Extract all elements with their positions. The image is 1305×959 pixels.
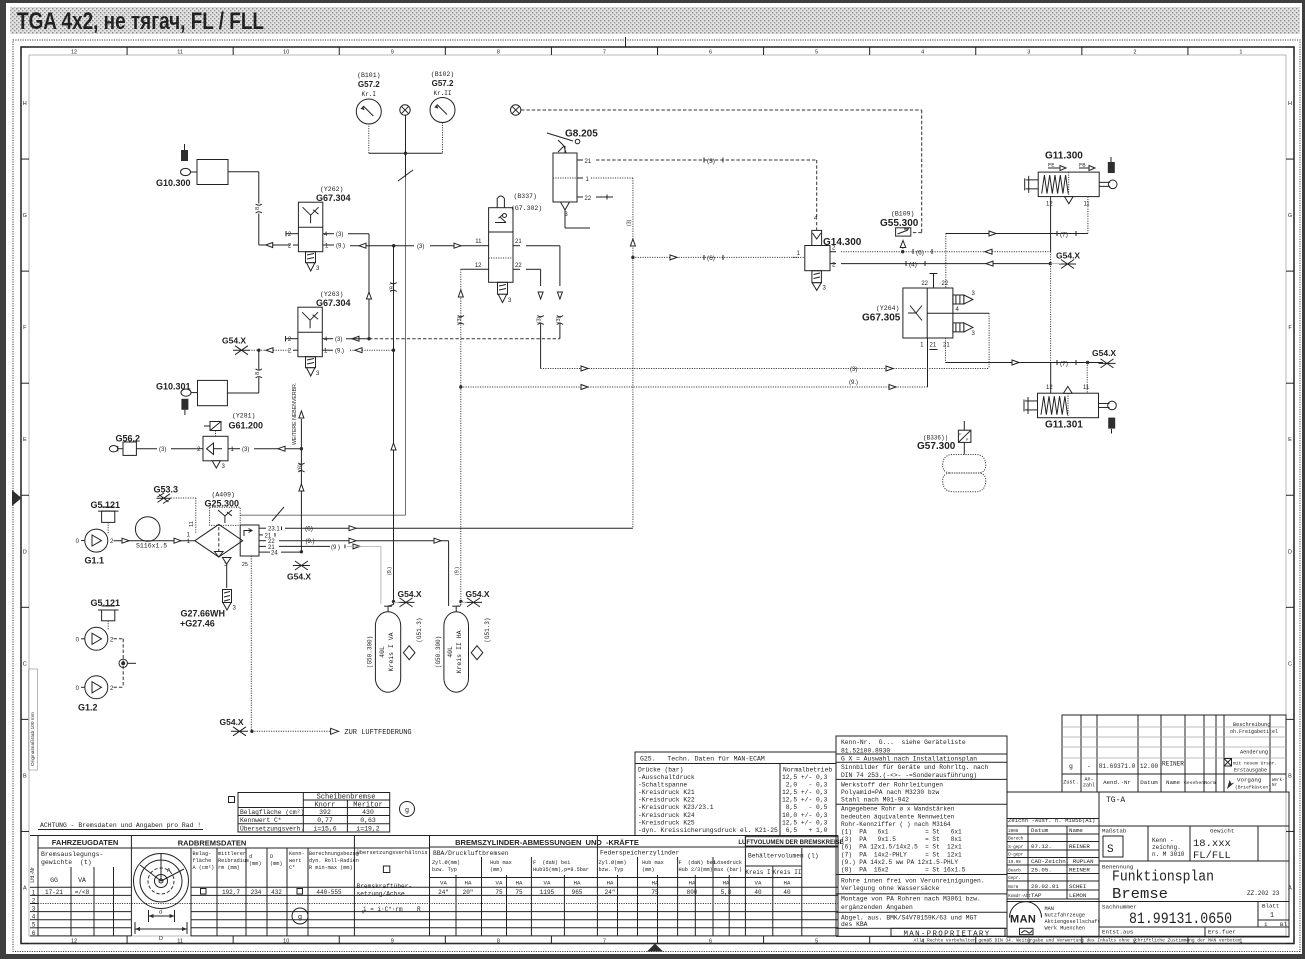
svg-text:2008: 2008 bbox=[1008, 830, 1019, 834]
MAN logo bbox=[1007, 901, 1099, 903]
svg-text:22: 22 bbox=[921, 281, 928, 287]
svg-text:8: 8 bbox=[255, 372, 261, 375]
svg-text:(Y263): (Y263) bbox=[320, 291, 343, 298]
svg-text:D: D bbox=[23, 549, 27, 555]
svg-text:17-21: 17-21 bbox=[45, 889, 63, 896]
svg-text:(7): (7) bbox=[1060, 231, 1068, 238]
svg-text:(1) PA 6x1 = St: (1) PA 6x1 = St 6x1 bbox=[841, 829, 962, 836]
svg-text:DIN 74 253.(-<>- -=Sonderausfü: DIN 74 253.(-<>- -=Sonderausführung) bbox=[841, 772, 977, 779]
svg-text:MAN: MAN bbox=[1010, 914, 1036, 926]
svg-text:Kr.I: Kr.I bbox=[362, 91, 376, 98]
svg-text:0,63: 0,63 bbox=[360, 817, 376, 824]
G54.X reservoir 1 bbox=[398, 598, 415, 607]
exhaust 3 of Y263 bbox=[306, 357, 316, 368]
svg-text:7: 7 bbox=[603, 50, 606, 56]
svg-text:G X = Auswahl nach Installatio: G X = Auswahl nach Installationsplan bbox=[841, 756, 977, 763]
svg-text:G1.2: G1.2 bbox=[78, 703, 98, 713]
node (4) end bbox=[1049, 262, 1052, 265]
svg-text:(4): (4) bbox=[909, 262, 917, 269]
svg-text:k: k bbox=[362, 910, 365, 916]
svg-text:12: 12 bbox=[71, 50, 77, 56]
(6) corner down bbox=[1050, 252, 1052, 264]
svg-text:Montage von PA Rohren nach M30: Montage von PA Rohren nach M3061 bzw. bbox=[841, 895, 981, 902]
svg-text:A: A bbox=[167, 868, 171, 874]
svg-text:(B101): (B101) bbox=[357, 72, 380, 79]
svg-text:REINER: REINER bbox=[1069, 843, 1090, 850]
svg-text:Kreis II HA: Kreis II HA bbox=[456, 630, 463, 673]
svg-text:392: 392 bbox=[319, 809, 331, 816]
svg-text:8: 8 bbox=[497, 939, 500, 945]
test ports right bbox=[953, 295, 964, 304]
ports bottom bbox=[927, 338, 929, 387]
valve G67.304 Y262 bbox=[298, 202, 322, 252]
svg-text:E: E bbox=[1288, 437, 1292, 443]
svg-text:wert: wert bbox=[289, 858, 301, 864]
svg-text:(6) PA 12x1.5/14x2.5 = St 1: (6) PA 12x1.5/14x2.5 = St 12x1 bbox=[841, 844, 962, 851]
svg-text:rm (mm): rm (mm) bbox=[218, 865, 240, 871]
svg-text:Reibradius: Reibradius bbox=[218, 858, 249, 864]
svg-text:G5.121: G5.121 bbox=[91, 500, 121, 510]
svg-text:(G7.302): (G7.302) bbox=[511, 205, 542, 212]
svg-text:B: B bbox=[1288, 773, 1292, 779]
svg-text:Lösedruck: Lösedruck bbox=[714, 860, 742, 866]
svg-text:setzung/Achse: setzung/Achse bbox=[357, 891, 406, 898]
wire to G55.300 bbox=[521, 109, 922, 111]
svg-text:07.12.: 07.12. bbox=[1031, 843, 1052, 850]
svg-text:192,7: 192,7 bbox=[222, 889, 240, 896]
svg-text:Zust.: Zust. bbox=[1063, 780, 1079, 786]
svg-text:Bremse: Bremse bbox=[1112, 886, 1168, 903]
wire V5 (6) G8.205 p1 down to G25.300 23.1 bbox=[632, 178, 634, 528]
svg-text:12: 12 bbox=[71, 939, 77, 945]
svg-text:40: 40 bbox=[783, 889, 791, 896]
svg-text:S116x1.5: S116x1.5 bbox=[136, 543, 167, 550]
svg-text:Normalbetrieb: Normalbetrieb bbox=[783, 767, 832, 774]
svg-text:Gewicht: Gewicht bbox=[1210, 828, 1234, 835]
svg-text:20": 20" bbox=[463, 889, 474, 896]
svg-text:Übersetzungsverhältnis: Übersetzungsverhältnis bbox=[357, 849, 428, 856]
svg-text:E: E bbox=[23, 437, 27, 443]
svg-text:10: 10 bbox=[283, 50, 289, 56]
wire y233 solid bbox=[946, 233, 1088, 235]
svg-text:-: - bbox=[1087, 763, 1091, 770]
svg-text:G27.66WH: G27.66WH bbox=[181, 609, 226, 619]
svg-text:Hub 2/3(mm): Hub 2/3(mm) bbox=[679, 867, 713, 873]
svg-text:Norm: Norm bbox=[1008, 886, 1019, 890]
svg-text:40: 40 bbox=[754, 889, 762, 896]
bellows bbox=[943, 455, 986, 474]
svg-text:Bremsauslegungs-: Bremsauslegungs- bbox=[41, 851, 103, 858]
svg-text:mittlerer: mittlerer bbox=[218, 851, 246, 857]
svg-text:Berech: Berech bbox=[1008, 837, 1024, 842]
svg-text:(9.): (9.) bbox=[849, 380, 858, 386]
G14 exhaust bbox=[812, 271, 822, 283]
svg-text:11: 11 bbox=[189, 521, 195, 527]
svg-text:C: C bbox=[1288, 661, 1292, 667]
svg-text:G25. Techn. Daten für MAN-EC: G25. Techn. Daten für MAN-ECAM bbox=[640, 756, 765, 763]
svg-text:Federspeicherzylinder: Federspeicherzylinder bbox=[600, 850, 680, 857]
svg-text:Rohre innen frei von Verunrein: Rohre innen frei von Verunreinigungen. bbox=[841, 877, 985, 884]
svg-text:FE: FE bbox=[1048, 162, 1055, 169]
svg-text:-dyn. Kreissicherungsdruck el.: -dyn. Kreissicherungsdruck el. K21-25 bbox=[638, 827, 778, 834]
svg-text:Alle Rechte vorbehalten gemäß: Alle Rechte vorbehalten gemäß DIN 34. We… bbox=[914, 939, 1242, 944]
port 4 bbox=[953, 312, 989, 314]
svg-text:0,77: 0,77 bbox=[317, 817, 333, 824]
svg-text:21: 21 bbox=[930, 343, 937, 349]
svg-text:12: 12 bbox=[1046, 385, 1053, 391]
svg-text:(3): (3) bbox=[159, 447, 166, 453]
svg-text:TGA 4x2, не тягач, FL / FLL: TGA 4x2, не тягач, FL / FLL bbox=[17, 8, 264, 35]
svg-text:(3): (3) bbox=[242, 447, 249, 453]
svg-text:12.00: 12.00 bbox=[1140, 763, 1159, 770]
svg-text:A: A bbox=[23, 885, 27, 891]
fold mark left edge bbox=[12, 490, 22, 506]
svg-text:=/<8: =/<8 bbox=[75, 889, 90, 896]
G54.X reservoir 2 bbox=[465, 598, 482, 607]
(7) line to G11.301 bbox=[946, 362, 1104, 364]
svg-text:HA: HA bbox=[574, 880, 581, 887]
wire (3) down to Y263 port4 line bbox=[368, 234, 370, 339]
svg-text:430: 430 bbox=[362, 809, 374, 816]
svg-text:(mm): (mm) bbox=[490, 867, 502, 873]
svg-text:40L: 40L bbox=[447, 646, 454, 658]
svg-text:11: 11 bbox=[1084, 202, 1091, 208]
svg-text:1195: 1195 bbox=[540, 889, 555, 896]
table G25 tech data bbox=[635, 752, 836, 836]
wire to air suspension bbox=[252, 730, 331, 732]
svg-text:HA: HA bbox=[607, 880, 614, 887]
svg-text:10: 10 bbox=[283, 939, 289, 945]
svg-text:440-555: 440-555 bbox=[316, 889, 342, 896]
svg-text:Werkstoff der Rohrleitungen: Werkstoff der Rohrleitungen bbox=[841, 782, 943, 789]
svg-text:-Kreisdruck K25: -Kreisdruck K25 bbox=[638, 819, 695, 826]
svg-text:G54.X: G54.X bbox=[222, 336, 246, 346]
svg-text:Angegebene Rohr ø x Wandstärke: Angegebene Rohr ø x Wandstärken bbox=[841, 806, 955, 813]
svg-text:6: 6 bbox=[709, 939, 712, 945]
plugged junction bbox=[119, 659, 127, 667]
svg-text:TG-A: TG-A bbox=[1106, 796, 1125, 805]
wire (3) to B337 port 11 bbox=[394, 245, 414, 247]
spring brake cylinder G11.300 bbox=[1038, 172, 1099, 197]
svg-text:(mm): (mm) bbox=[270, 861, 282, 867]
svg-text:Belag-: Belag- bbox=[193, 851, 212, 857]
svg-text:(9.): (9.) bbox=[390, 283, 396, 291]
test point connector 2 bbox=[511, 105, 521, 115]
svg-text:LEMON: LEMON bbox=[1069, 892, 1087, 899]
svg-text:2,0 - 0,3: 2,0 - 0,3 bbox=[782, 782, 828, 789]
wire G10.300 to valve bbox=[228, 171, 259, 173]
svg-text:Hub max: Hub max bbox=[642, 860, 664, 866]
svg-text:Kreis II: Kreis II bbox=[773, 869, 802, 876]
svg-text:12: 12 bbox=[475, 263, 482, 269]
wire G61.200 to node (3) bbox=[228, 448, 240, 450]
svg-text:432: 432 bbox=[271, 889, 282, 896]
svg-text:G11.301: G11.301 bbox=[1045, 420, 1083, 431]
valve G67.304 Y263 bbox=[298, 307, 322, 357]
svg-text:Datum: Datum bbox=[1140, 779, 1158, 786]
svg-text:Hub max: Hub max bbox=[490, 860, 512, 866]
svg-text:Sinnbilder für Geräte und Rohr: Sinnbilder für Geräte und Rohrltg. nach bbox=[841, 764, 989, 771]
svg-text:(3): (3) bbox=[417, 244, 424, 250]
svg-text:RADBREMSDATEN: RADBREMSDATEN bbox=[178, 839, 247, 848]
ports 22 top bbox=[933, 278, 935, 288]
muffler G27.66WH bbox=[223, 590, 232, 603]
revision table bbox=[1062, 715, 1286, 792]
exhaust G61.200 bbox=[212, 461, 220, 468]
long wire (9.) to G67.305 port1 bbox=[461, 386, 928, 388]
node bbox=[257, 349, 260, 352]
svg-text:Drücke (bar): Drücke (bar) bbox=[638, 767, 683, 774]
svg-text:n. M 3010: n. M 3010 bbox=[1152, 851, 1185, 858]
gray wire to reservoir 1 bbox=[347, 545, 381, 547]
svg-text:REINER: REINER bbox=[1069, 867, 1090, 874]
svg-text:S-gepr: S-gepr bbox=[1008, 846, 1024, 850]
gauge B102 G57.2 bbox=[430, 98, 455, 123]
svg-text:Kreis I: Kreis I bbox=[745, 869, 770, 876]
svg-text:G14.300: G14.300 bbox=[823, 237, 862, 248]
svg-text:G54.X: G54.X bbox=[1092, 348, 1116, 358]
svg-text:H: H bbox=[1288, 101, 1292, 107]
svg-text:11: 11 bbox=[475, 239, 482, 245]
svg-text:Werk-: Werk- bbox=[1272, 778, 1285, 783]
svg-text:(9.): (9.) bbox=[306, 539, 315, 545]
svg-text:12,5 +/- 0,3: 12,5 +/- 0,3 bbox=[782, 819, 828, 826]
svg-text:25: 25 bbox=[242, 562, 248, 568]
compressor G1.1 bbox=[85, 529, 108, 552]
svg-text:Ers.fuer: Ers.fuer bbox=[1208, 929, 1236, 936]
svg-text:12: 12 bbox=[1046, 202, 1053, 208]
svg-text:G54.X: G54.X bbox=[466, 589, 490, 599]
svg-text:5: 5 bbox=[815, 939, 818, 945]
svg-text:21: 21 bbox=[515, 239, 522, 245]
svg-text:Behältervolumen (l): Behältervolumen (l) bbox=[748, 853, 819, 860]
plug G11.300 bbox=[1108, 162, 1115, 173]
svg-text:Nr: Nr bbox=[1272, 784, 1278, 788]
reservoir 1 40L Kreis I VA bbox=[375, 612, 400, 693]
svg-text:G67.304: G67.304 bbox=[316, 193, 351, 203]
svg-text:ZUR LUFTFEDERUNG: ZUR LUFTFEDERUNG bbox=[344, 729, 411, 737]
svg-text:24": 24" bbox=[605, 889, 616, 896]
svg-text:D: D bbox=[270, 854, 273, 860]
node port24 bbox=[300, 550, 303, 553]
svg-text:G10.301: G10.301 bbox=[156, 382, 191, 392]
svg-text:81.99131.0650: 81.99131.0650 bbox=[1129, 910, 1232, 928]
svg-text:Aenderung: Aenderung bbox=[1240, 750, 1268, 756]
svg-text:gewichte (t): gewichte (t) bbox=[41, 859, 92, 866]
svg-text:G67.305: G67.305 bbox=[862, 313, 901, 324]
svg-text:F (daN) bei: F (daN) bei bbox=[533, 860, 570, 866]
svg-text:G54.X: G54.X bbox=[220, 717, 244, 727]
svg-text:Originalmaßstab 100 mm: Originalmaßstab 100 mm bbox=[30, 712, 36, 766]
svg-text:H: H bbox=[23, 101, 27, 107]
svg-text:18.xxx: 18.xxx bbox=[1193, 838, 1231, 850]
svg-text:21: 21 bbox=[943, 343, 950, 349]
svg-text:HA: HA bbox=[784, 880, 791, 887]
G14 ports bbox=[793, 256, 805, 258]
svg-text:Werk Muenchen: Werk Muenchen bbox=[1045, 926, 1085, 932]
svg-text:SCHEI: SCHEI bbox=[1069, 883, 1086, 890]
svg-text:TAP: TAP bbox=[1031, 892, 1042, 899]
svg-text:(G50.300): (G50.300) bbox=[366, 636, 373, 668]
svg-text:81.52100.8930: 81.52100.8930 bbox=[841, 747, 890, 754]
wire (6) to G14.300 p1 bbox=[633, 256, 799, 258]
svg-text:A (cm²): A (cm²) bbox=[193, 865, 215, 871]
svg-text:12,5 +/- 0,3: 12,5 +/- 0,3 bbox=[782, 774, 828, 781]
wire weitere nebenverbraucher bbox=[300, 419, 302, 552]
svg-text:zeichng.: zeichng. bbox=[1152, 844, 1181, 851]
svg-text:(B337): (B337) bbox=[514, 193, 537, 200]
svg-text:12,5 +/- 0,3: 12,5 +/- 0,3 bbox=[782, 797, 828, 804]
svg-text:(B109): (B109) bbox=[891, 211, 914, 218]
svg-text:(3): (3) bbox=[457, 316, 463, 323]
svg-text:Datum: Datum bbox=[1031, 827, 1049, 834]
svg-text:(3): (3) bbox=[336, 232, 343, 238]
svg-text:F (daN) bei: F (daN) bei bbox=[679, 860, 716, 866]
svg-text:Name: Name bbox=[1166, 779, 1180, 786]
B337 exhaust bbox=[498, 282, 508, 294]
svg-text:-Ausschaltdruck: -Ausschaltdruck bbox=[638, 774, 695, 781]
svg-text:23.1: 23.1 bbox=[268, 527, 280, 533]
long wire (3) to G67.305 port4 bbox=[541, 368, 990, 370]
svg-text:G57.300: G57.300 bbox=[917, 441, 956, 452]
wire down to G11.301 bbox=[1050, 264, 1052, 363]
svg-text:Komdr-Abt: Komdr-Abt bbox=[1008, 894, 1031, 899]
svg-text:965: 965 bbox=[572, 889, 583, 896]
svg-text:zahl: zahl bbox=[1083, 783, 1095, 789]
svg-text:21: 21 bbox=[585, 159, 592, 165]
G8.205 exhaust bbox=[561, 202, 570, 210]
svg-text:3: 3 bbox=[1027, 50, 1030, 56]
svg-text:d: d bbox=[159, 910, 162, 916]
svg-text:Kr.II: Kr.II bbox=[433, 90, 451, 97]
wheel drawing bbox=[134, 854, 189, 909]
gauge B101 G57.2 bbox=[356, 99, 381, 124]
air connector G10.300 bbox=[181, 150, 188, 161]
svg-text:oh.Freigabetitel: oh.Freigabetitel bbox=[1230, 729, 1278, 735]
svg-text:(6): (6) bbox=[305, 526, 313, 533]
svg-text:i=19,2: i=19,2 bbox=[356, 826, 380, 833]
svg-text:(Y264): (Y264) bbox=[876, 305, 899, 312]
svg-text:7: 7 bbox=[603, 939, 606, 945]
svg-text:1: 1 bbox=[1270, 912, 1274, 920]
svg-text:11: 11 bbox=[1083, 385, 1090, 391]
svg-text:Stahl nach M01-942: Stahl nach M01-942 bbox=[841, 797, 909, 804]
svg-text:VA: VA bbox=[78, 877, 86, 884]
svg-text:(A409): (A409) bbox=[212, 492, 235, 499]
svg-text:75: 75 bbox=[515, 889, 523, 896]
connection to (6) line bbox=[900, 241, 906, 248]
svg-text:VA: VA bbox=[440, 880, 447, 887]
wire V1 down to reservoir 1 bbox=[393, 246, 395, 602]
svg-text:CAD-Zeichn. RUPLAN: CAD-Zeichn. RUPLAN bbox=[1031, 858, 1094, 865]
svg-text:24: 24 bbox=[271, 551, 278, 557]
svg-text:(3): (3) bbox=[537, 316, 543, 323]
wire (9.) res2 feed bbox=[448, 541, 450, 606]
svg-text:Kreis I VA: Kreis I VA bbox=[388, 632, 395, 671]
svg-text:Verlegung ohne Wassersäcke: Verlegung ohne Wassersäcke bbox=[841, 885, 939, 892]
svg-text:4: 4 bbox=[921, 50, 924, 56]
svg-text:i = i·C*·rm R: i = i·C*·rm R bbox=[363, 906, 421, 913]
exhaust 3 of G67.304 bbox=[306, 252, 316, 263]
svg-text:Kenn-Nr. G... siehe Geräteli: Kenn-Nr. G... siehe Geräteliste bbox=[841, 739, 966, 746]
svg-text:mit neuem Urspr.: mit neuem Urspr. bbox=[1233, 761, 1277, 767]
svg-text:(6): (6) bbox=[297, 464, 303, 471]
svg-text:G54.X: G54.X bbox=[398, 589, 422, 599]
coil pipe bbox=[135, 517, 160, 542]
svg-text:ZZ.202 23: ZZ.202 23 bbox=[1247, 890, 1280, 897]
svg-text:G67.304: G67.304 bbox=[316, 298, 351, 308]
svg-text:(9.): (9.) bbox=[335, 349, 344, 355]
svg-text:Aktiengesellschaft: Aktiengesellschaft bbox=[1045, 919, 1101, 925]
compressor G1.2 lower bbox=[85, 676, 108, 699]
svg-text:R min-max (mm): R min-max (mm) bbox=[309, 865, 353, 871]
svg-text:(mm): (mm) bbox=[642, 867, 654, 873]
svg-text:81.69371.0: 81.69371.0 bbox=[1099, 763, 1136, 770]
svg-text:Lfd.-Nr: Lfd.-Nr bbox=[30, 867, 36, 883]
svg-text:Gepr.: Gepr. bbox=[1008, 877, 1021, 881]
svg-text:12,5 +/- 0,3: 12,5 +/- 0,3 bbox=[782, 789, 828, 796]
svg-text:ergänzenden Angaben: ergänzenden Angaben bbox=[841, 904, 913, 911]
svg-text:HA: HA bbox=[516, 880, 523, 887]
svg-text:(B102): (B102) bbox=[431, 71, 454, 78]
svg-text:(3): (3) bbox=[850, 367, 857, 373]
svg-text:VA: VA bbox=[755, 880, 762, 887]
svg-text:REINER: REINER bbox=[1162, 761, 1184, 768]
svg-text:Maßstab: Maßstab bbox=[1102, 828, 1127, 835]
svg-text:D: D bbox=[1288, 549, 1292, 555]
svg-text:FL/FLL: FL/FLL bbox=[1193, 850, 1231, 862]
svg-text:Beschreibung: Beschreibung bbox=[1233, 722, 1270, 728]
table scheibenbremse bbox=[238, 793, 390, 833]
svg-text:19.98: 19.98 bbox=[1008, 861, 1021, 865]
svg-text:C: C bbox=[23, 661, 27, 667]
svg-text:(6): (6) bbox=[707, 255, 715, 262]
svg-text:(9.): (9.) bbox=[336, 244, 345, 250]
svg-text:(3) PA 9x1.5 = St: (3) PA 9x1.5 = St 8x1 bbox=[841, 836, 962, 843]
check valve top bbox=[812, 230, 822, 245]
svg-text:bedeuten äquivalente Nennweite: bedeuten äquivalente Nennweiten bbox=[841, 813, 955, 820]
G11.300 exhaust bbox=[1065, 197, 1074, 204]
spring brake cylinder G11.301 bbox=[1038, 393, 1099, 418]
svg-text:Übersetzungsverh.: Übersetzungsverh. bbox=[240, 825, 304, 833]
svg-text:22: 22 bbox=[942, 281, 949, 287]
svg-text:(3): (3) bbox=[556, 316, 562, 323]
svg-text:MAN-PROPRIETARY: MAN-PROPRIETARY bbox=[903, 930, 990, 938]
svg-text:-Kreisdruck K24: -Kreisdruck K24 bbox=[638, 812, 695, 819]
svg-text:Kenn -: Kenn - bbox=[1152, 837, 1174, 844]
svg-text:(3): (3) bbox=[707, 158, 715, 165]
svg-text:VA: VA bbox=[496, 880, 503, 887]
svg-text:Kennwert C*: Kennwert C* bbox=[240, 817, 282, 824]
svg-text:(9.): (9.) bbox=[454, 567, 460, 575]
svg-text:Gesehen: Gesehen bbox=[1184, 780, 1204, 786]
svg-text:Hub35(mm),p=8.5bar: Hub35(mm),p=8.5bar bbox=[533, 867, 589, 873]
svg-text:(9.) PA 14x2.5 ww PA 12x1.5-PH: (9.) PA 14x2.5 ww PA 12x1.5-PHLY bbox=[841, 859, 958, 866]
svg-text:6: 6 bbox=[709, 50, 712, 56]
node port 25 end bbox=[250, 730, 253, 733]
svg-text:Rohr-Kennziffer ( ) nach M3164: Rohr-Kennziffer ( ) nach M3164 bbox=[841, 821, 951, 828]
svg-text:(6): (6) bbox=[916, 250, 924, 257]
svg-text:8: 8 bbox=[255, 207, 261, 210]
svg-text:Erstausgabe: Erstausgabe bbox=[1234, 768, 1267, 774]
svg-text:-Kreisdruck K22: -Kreisdruck K22 bbox=[638, 797, 695, 804]
svg-text:g: g bbox=[1069, 763, 1073, 770]
svg-text:Kenn-: Kenn- bbox=[289, 851, 305, 857]
wire G56.2 to G61.200 (3) bbox=[136, 448, 157, 450]
svg-text:G57.2: G57.2 bbox=[358, 80, 380, 89]
svg-text:G8.205: G8.205 bbox=[565, 129, 598, 140]
svg-text:VA: VA bbox=[544, 880, 551, 887]
